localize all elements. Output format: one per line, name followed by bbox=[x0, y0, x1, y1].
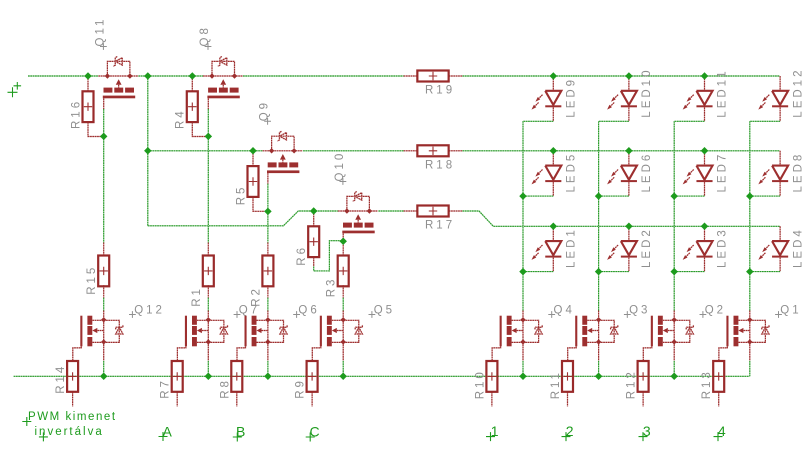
transistor Q3 (N-MOSFET) bbox=[568, 311, 618, 377]
wire pin stub bbox=[267, 285, 269, 298]
label Q11 bbox=[94, 17, 106, 50]
wire R10 bottom stub bbox=[491, 392, 493, 407]
LED LED11 bbox=[674, 76, 712, 121]
junction bbox=[550, 72, 558, 80]
junction bbox=[519, 192, 527, 200]
resistor R11 bbox=[562, 361, 573, 392]
wire pin stub bbox=[207, 285, 209, 298]
svg-text:R2: R2 bbox=[250, 286, 262, 307]
junction bbox=[144, 147, 152, 155]
LED LED5 bbox=[523, 151, 561, 196]
LED LED8 bbox=[750, 151, 788, 196]
wire R6 top pin bbox=[313, 211, 315, 226]
transistor Q11 (P-MOSFET) bbox=[98, 57, 138, 137]
svg-text:Q5: Q5 bbox=[374, 305, 395, 317]
junction bbox=[670, 373, 678, 381]
wire pin stub bbox=[267, 243, 269, 256]
label R6 bbox=[296, 245, 308, 266]
wire R12 bottom stub bbox=[642, 392, 644, 407]
svg-text:LED11: LED11 bbox=[717, 68, 729, 117]
wire R5 bottom pin to gate node bbox=[253, 197, 268, 211]
wire V+ rail left segment bbox=[28, 75, 98, 77]
resistor R16 bbox=[83, 91, 94, 122]
junction bbox=[100, 133, 108, 141]
resistor R6 bbox=[308, 226, 319, 257]
svg-text:LED9: LED9 bbox=[566, 77, 578, 118]
label LED9 bbox=[566, 77, 578, 118]
svg-text:PWM kimenet: PWM kimenet bbox=[28, 411, 117, 423]
label R15 bbox=[86, 265, 98, 295]
svg-text:R15: R15 bbox=[86, 265, 98, 295]
junction bbox=[264, 208, 272, 216]
wire R5 top pin bbox=[252, 151, 254, 166]
resistor R8 bbox=[231, 361, 242, 392]
svg-text:Q2: Q2 bbox=[705, 305, 726, 317]
wire row-2 net left bbox=[148, 150, 263, 152]
label LED2 bbox=[641, 227, 653, 268]
junction bbox=[205, 373, 213, 381]
transistor Q4 (N-MOSFET) bbox=[492, 311, 542, 377]
resistor R13 bbox=[713, 361, 724, 392]
label Q12 bbox=[129, 305, 165, 318]
junction bbox=[310, 207, 318, 215]
junction bbox=[519, 373, 527, 381]
svg-text:R8: R8 bbox=[219, 378, 231, 399]
LED LED6 bbox=[599, 151, 637, 196]
junction bbox=[670, 268, 678, 276]
junction bbox=[746, 192, 754, 200]
svg-text:Q3: Q3 bbox=[629, 305, 650, 317]
wire V+ rail between Q11 and Q8 bbox=[138, 75, 203, 77]
svg-text:R1: R1 bbox=[191, 286, 203, 307]
junction bbox=[100, 373, 108, 381]
resistor R9 bbox=[307, 361, 318, 392]
svg-text:Q12: Q12 bbox=[134, 305, 165, 317]
LED LED12 bbox=[750, 76, 788, 121]
wire R16 top pin bbox=[87, 76, 89, 91]
wire R4 bottom pin to gate node bbox=[192, 122, 208, 136]
junction bbox=[144, 72, 152, 80]
LED LED3 bbox=[674, 226, 712, 271]
junction bbox=[625, 72, 633, 80]
resistor R17 bbox=[417, 206, 448, 217]
wire pin stub bbox=[342, 243, 344, 256]
junction bbox=[550, 223, 558, 231]
transistor Q10 (P-MOSFET) bbox=[338, 192, 378, 245]
wire R19 pins bbox=[404, 75, 463, 77]
label R10 bbox=[474, 369, 486, 399]
resistor R19 bbox=[417, 71, 448, 82]
label LED10 bbox=[641, 68, 653, 118]
label LED5 bbox=[566, 152, 578, 193]
wire vertical tap from Q11 drain down to rows 2 and 3 bbox=[147, 76, 149, 226]
net label 3 bbox=[639, 423, 651, 441]
wire resistor to drain bbox=[207, 298, 209, 311]
label Q9 bbox=[259, 100, 271, 125]
label R18 bbox=[425, 159, 455, 171]
LED LED1 bbox=[523, 226, 561, 271]
junction bbox=[701, 72, 709, 80]
resistor R15 bbox=[98, 256, 109, 287]
net label 4 bbox=[714, 423, 726, 441]
junction bbox=[625, 147, 633, 155]
svg-text:R17: R17 bbox=[425, 220, 455, 232]
wire V+ rail Q8 to R19 bbox=[243, 75, 404, 77]
svg-text:R12: R12 bbox=[626, 369, 638, 399]
wire R7 bottom stub bbox=[176, 392, 178, 407]
resistor R5 bbox=[248, 166, 259, 197]
junction bbox=[595, 192, 603, 200]
LED LED2 bbox=[599, 226, 637, 271]
label R7 bbox=[160, 378, 172, 399]
wire row-2 net Q9 to R18 bbox=[303, 150, 404, 152]
junction bbox=[205, 133, 213, 141]
LED LED4 bbox=[750, 226, 788, 271]
svg-text:Q6: Q6 bbox=[298, 305, 319, 317]
label Q3 bbox=[624, 305, 651, 318]
label Q6 bbox=[293, 305, 320, 318]
resistor R14 bbox=[67, 361, 78, 392]
label LED8 bbox=[792, 152, 804, 193]
wire LED column bbox=[522, 121, 524, 310]
svg-text:R18: R18 bbox=[425, 159, 455, 171]
transistor Q9 (P-MOSFET) bbox=[263, 131, 303, 211]
label R17 bbox=[425, 220, 455, 232]
resistor R2 bbox=[262, 256, 273, 287]
junction bbox=[249, 147, 257, 155]
svg-text:R5: R5 bbox=[235, 185, 247, 206]
label R1 bbox=[191, 286, 203, 307]
transistor Q1 (N-MOSFET) bbox=[719, 311, 769, 377]
label R4 bbox=[175, 108, 187, 129]
wire R4 top pin bbox=[191, 76, 193, 91]
wire resistor to drain bbox=[342, 298, 344, 311]
label R16 bbox=[70, 99, 82, 129]
resistor R1 bbox=[203, 256, 214, 287]
svg-text:LED8: LED8 bbox=[792, 152, 804, 193]
svg-text:LED10: LED10 bbox=[641, 68, 653, 118]
transistor Q2 (N-MOSFET) bbox=[643, 311, 693, 377]
resistor R3 bbox=[338, 256, 349, 287]
wire PWM bottom rail bbox=[14, 375, 750, 377]
junction bbox=[595, 268, 603, 276]
LED LED9 bbox=[523, 76, 561, 121]
label LED1 bbox=[566, 227, 578, 268]
wire row-2 net R18 to LEDs bbox=[463, 150, 780, 152]
svg-text:R9: R9 bbox=[295, 378, 307, 399]
wire pin stub bbox=[207, 243, 209, 256]
label R9 bbox=[295, 378, 307, 399]
LED LED10 bbox=[599, 76, 637, 121]
resistor R10 bbox=[486, 361, 497, 392]
wire R18 pins bbox=[404, 150, 463, 152]
svg-text:R6: R6 bbox=[296, 245, 308, 266]
net label 1 bbox=[486, 423, 499, 441]
junction bbox=[670, 192, 678, 200]
svg-text:Q8: Q8 bbox=[199, 25, 211, 46]
wire LED column bbox=[749, 121, 751, 310]
label R13 bbox=[701, 369, 713, 399]
svg-text:R3: R3 bbox=[326, 277, 338, 298]
label R19 bbox=[425, 85, 455, 97]
junction bbox=[746, 268, 754, 276]
label LED11 bbox=[717, 68, 729, 117]
svg-text:R19: R19 bbox=[425, 85, 455, 97]
svg-text:Q4: Q4 bbox=[554, 305, 575, 317]
net label 2 bbox=[562, 423, 574, 441]
wire R17 pins bbox=[404, 210, 463, 212]
svg-text:LED3: LED3 bbox=[717, 227, 729, 268]
junction bbox=[339, 237, 347, 245]
svg-text:Q9: Q9 bbox=[259, 100, 271, 121]
resistor R18 bbox=[417, 145, 448, 156]
svg-text:R11: R11 bbox=[550, 370, 562, 399]
wire pin stub bbox=[103, 243, 105, 256]
net label B bbox=[233, 424, 246, 442]
junction bbox=[339, 373, 347, 381]
label LED7 bbox=[717, 152, 729, 193]
wire gate node down to resistor bbox=[103, 136, 105, 242]
LED LED7 bbox=[674, 151, 712, 196]
label R5 bbox=[235, 185, 247, 206]
label Q7 bbox=[234, 305, 261, 318]
junction bbox=[84, 72, 92, 80]
svg-text:LED1: LED1 bbox=[566, 227, 578, 268]
svg-text:R13: R13 bbox=[701, 369, 713, 399]
svg-text:Q10: Q10 bbox=[334, 151, 346, 182]
label Q8 bbox=[199, 25, 211, 50]
label LED4 bbox=[792, 227, 804, 268]
wire R14 bottom stub bbox=[72, 392, 74, 407]
resistor R12 bbox=[638, 361, 649, 392]
wire R8 bottom stub bbox=[236, 392, 238, 407]
label R12 bbox=[626, 369, 638, 399]
svg-text:R10: R10 bbox=[474, 369, 486, 399]
svg-text:R7: R7 bbox=[160, 378, 172, 399]
wire R11 bottom stub bbox=[567, 392, 569, 407]
label Q4 bbox=[548, 305, 575, 318]
wire row-3 net Q10 to R17 bbox=[378, 210, 403, 212]
resistor R4 bbox=[187, 91, 198, 122]
label Q10 bbox=[334, 151, 346, 185]
transistor Q7 (N-MOSFET) bbox=[177, 311, 227, 377]
label Q5 bbox=[369, 305, 396, 318]
transistor Q6 (N-MOSFET) bbox=[237, 311, 287, 377]
svg-text:invertálva: invertálva bbox=[35, 426, 104, 438]
wire LED column bbox=[598, 121, 600, 310]
wire row-3 net left with jog bbox=[148, 211, 338, 226]
label R14 bbox=[55, 364, 67, 394]
junction bbox=[625, 223, 633, 231]
junction bbox=[701, 223, 709, 231]
wire gate node down to resistor bbox=[207, 136, 209, 242]
svg-text:A: A bbox=[163, 424, 173, 440]
junction bbox=[189, 72, 197, 80]
svg-text:Q11: Q11 bbox=[94, 17, 106, 47]
wire resistor to drain bbox=[103, 298, 105, 311]
label LED12 bbox=[792, 68, 804, 118]
svg-text:LED2: LED2 bbox=[641, 227, 653, 268]
svg-text:LED12: LED12 bbox=[792, 68, 804, 118]
junction bbox=[264, 373, 272, 381]
wire LED column bbox=[673, 121, 675, 310]
label Q2 bbox=[700, 305, 727, 318]
junction bbox=[701, 147, 709, 155]
net label C bbox=[306, 424, 320, 442]
svg-text:LED7: LED7 bbox=[717, 152, 729, 193]
junction bbox=[595, 373, 603, 381]
label Q1 bbox=[775, 305, 802, 318]
label R11 bbox=[550, 370, 562, 399]
svg-text:LED6: LED6 bbox=[641, 152, 653, 193]
wire R13 bottom stub bbox=[718, 392, 720, 407]
svg-text:LED5: LED5 bbox=[566, 152, 578, 193]
transistor Q8 (P-MOSFET) bbox=[203, 57, 243, 137]
label LED6 bbox=[641, 152, 653, 193]
wire pin stub bbox=[103, 285, 105, 298]
net label A bbox=[159, 424, 173, 442]
label R8 bbox=[219, 378, 231, 399]
wire pin stub bbox=[342, 285, 344, 298]
wire R9 bottom stub bbox=[311, 392, 313, 407]
wire R16 bottom pin to gate node bbox=[88, 122, 104, 136]
svg-text:R4: R4 bbox=[175, 108, 187, 129]
svg-text:Q1: Q1 bbox=[780, 305, 801, 317]
svg-text:R16: R16 bbox=[70, 99, 82, 129]
wire R6 bottom pin bbox=[313, 257, 315, 266]
supply +V symbol bbox=[8, 82, 22, 97]
wire gate node down to resistor bbox=[267, 211, 269, 242]
label LED3 bbox=[717, 227, 729, 268]
transistor Q5 (N-MOSFET) bbox=[312, 311, 362, 377]
junction bbox=[519, 268, 527, 276]
wire row-1 net R19 to LEDs bbox=[463, 75, 780, 77]
transistor Q12 (N-MOSFET) bbox=[73, 311, 123, 377]
net label PWM kimenet bbox=[22, 411, 116, 441]
label R2 bbox=[250, 286, 262, 307]
wire resistor to drain bbox=[267, 298, 269, 311]
wire gate node down to resistor bbox=[342, 241, 344, 242]
svg-text:LED4: LED4 bbox=[792, 227, 804, 268]
wire row-3 net R17 to LEDs with jog bbox=[463, 211, 780, 226]
wire R6 to Q10 gate node bbox=[314, 241, 344, 271]
junction bbox=[550, 147, 558, 155]
label R3 bbox=[326, 277, 338, 298]
svg-text:R14: R14 bbox=[55, 364, 67, 394]
resistor R7 bbox=[172, 361, 183, 392]
